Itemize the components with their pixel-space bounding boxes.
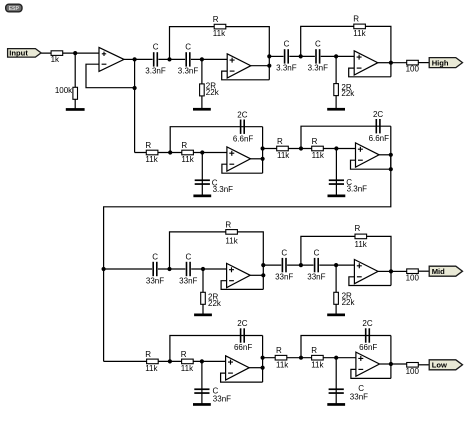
svg-text:33nF: 33nF xyxy=(350,393,368,402)
svg-text:C: C xyxy=(185,43,191,52)
svg-text:R: R xyxy=(225,220,231,229)
svg-text:2C: 2C xyxy=(373,110,383,119)
svg-text:100: 100 xyxy=(406,367,420,376)
svg-text:22k: 22k xyxy=(342,298,356,307)
svg-text:3.3nF: 3.3nF xyxy=(145,67,166,76)
svg-text:R: R xyxy=(213,15,219,24)
svg-text:C: C xyxy=(153,43,159,52)
svg-text:R: R xyxy=(355,224,361,233)
svg-text:2C: 2C xyxy=(362,319,372,328)
svg-text:High: High xyxy=(432,59,449,68)
svg-text:11k: 11k xyxy=(181,155,194,164)
svg-text:3.3nF: 3.3nF xyxy=(276,64,297,73)
svg-text:C: C xyxy=(284,40,290,49)
svg-text:100: 100 xyxy=(406,65,420,74)
svg-text:C: C xyxy=(315,40,321,49)
svg-text:33nF: 33nF xyxy=(213,394,231,403)
svg-text:11k: 11k xyxy=(277,151,290,160)
svg-text:11k: 11k xyxy=(353,29,366,38)
svg-text:Input: Input xyxy=(9,49,28,58)
svg-text:33nF: 33nF xyxy=(275,272,293,281)
svg-text:Low: Low xyxy=(432,361,447,370)
svg-text:22k: 22k xyxy=(206,88,220,97)
svg-text:11k: 11k xyxy=(355,240,368,249)
svg-text:11k: 11k xyxy=(276,360,289,369)
svg-text:66nF: 66nF xyxy=(359,343,377,352)
svg-text:C: C xyxy=(281,248,287,257)
svg-text:22k: 22k xyxy=(208,299,222,308)
svg-text:11k: 11k xyxy=(225,237,238,246)
svg-text:11k: 11k xyxy=(311,360,324,369)
svg-text:2C: 2C xyxy=(237,110,247,119)
svg-text:6.6nF: 6.6nF xyxy=(369,134,390,143)
svg-text:22k: 22k xyxy=(341,89,355,98)
svg-text:Mid: Mid xyxy=(432,267,445,276)
svg-text:11k: 11k xyxy=(145,364,158,373)
svg-text:33nF: 33nF xyxy=(146,276,164,285)
svg-text:R: R xyxy=(276,346,282,355)
svg-text:R: R xyxy=(353,14,359,23)
svg-text:R: R xyxy=(181,141,187,150)
svg-text:3.3nF: 3.3nF xyxy=(347,185,368,194)
svg-text:R: R xyxy=(312,137,318,146)
svg-text:11k: 11k xyxy=(312,151,325,160)
svg-text:C: C xyxy=(152,252,158,261)
svg-text:11k: 11k xyxy=(213,29,226,38)
svg-text:100: 100 xyxy=(406,273,420,282)
svg-text:R: R xyxy=(181,350,187,359)
svg-text:R: R xyxy=(145,350,151,359)
svg-text:6.6nF: 6.6nF xyxy=(233,134,254,143)
svg-text:2C: 2C xyxy=(237,319,247,328)
svg-text:C: C xyxy=(358,384,364,393)
svg-text:R: R xyxy=(145,141,151,150)
svg-text:1k: 1k xyxy=(51,55,60,64)
svg-text:R: R xyxy=(277,137,283,146)
svg-text:33nF: 33nF xyxy=(307,272,325,281)
svg-text:R: R xyxy=(311,346,317,355)
svg-text:3.3nF: 3.3nF xyxy=(178,67,199,76)
svg-text:100k: 100k xyxy=(55,86,73,95)
svg-text:C: C xyxy=(314,248,320,257)
svg-text:ESP: ESP xyxy=(9,6,20,12)
svg-text:3.3nF: 3.3nF xyxy=(213,185,234,194)
svg-text:11k: 11k xyxy=(145,155,158,164)
svg-text:3.3nF: 3.3nF xyxy=(308,64,329,73)
svg-text:66nF: 66nF xyxy=(234,343,252,352)
svg-text:C: C xyxy=(186,252,192,261)
svg-text:11k: 11k xyxy=(181,364,194,373)
svg-text:33nF: 33nF xyxy=(179,276,197,285)
